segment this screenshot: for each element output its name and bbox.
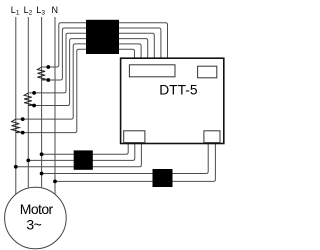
junction dot L3 bottom tap <box>46 78 50 82</box>
svg-text:N: N <box>52 5 59 15</box>
wire L2 shunt bottom tap <box>28 39 147 106</box>
junction dot L3 power <box>40 172 44 176</box>
junction dot L2 sense <box>26 159 30 163</box>
motor M1 circle <box>5 187 67 249</box>
ferrite core block over sense wire bundle <box>86 20 119 54</box>
shunt resistor in L1 <box>12 119 20 133</box>
ferrite core block over lower sense wires <box>74 150 93 169</box>
junction dot L1 top tap <box>21 117 25 121</box>
junction dot L1 bottom tap <box>21 131 25 135</box>
wire L3 vertical <box>41 17 43 188</box>
ferrite core block over power wires <box>153 169 173 187</box>
wire N vertical <box>54 17 56 195</box>
wire L2 voltage sense <box>28 143 135 161</box>
wire L3 shunt top tap <box>42 23 168 67</box>
DTT-5 top-right display window <box>198 66 217 78</box>
wire L1 vertical <box>15 17 17 195</box>
junction dot L2 top tap <box>32 91 36 95</box>
DTT-5 device outline <box>121 58 224 143</box>
wire L1 shunt top tap <box>16 44 141 119</box>
wire L3 power feed <box>42 143 209 174</box>
svg-text:Motor: Motor <box>20 201 54 217</box>
wire L3 voltage sense <box>42 143 129 155</box>
wire L2 shunt top tap <box>28 33 154 93</box>
wire L1 shunt bottom tap <box>16 49 135 132</box>
DTT-5 bottom-right power terminal <box>204 131 220 143</box>
junction dot N power <box>53 180 57 184</box>
wire N power feed <box>55 143 215 182</box>
svg-text:3~: 3~ <box>26 217 41 233</box>
shunt resistor in L3 <box>37 67 45 80</box>
svg-text:DTT-5: DTT-5 <box>159 83 198 98</box>
wire L3 shunt bottom tap <box>42 28 161 80</box>
DTT-5 bottom-left voltage terminal <box>124 131 145 143</box>
wire L1 voltage sense <box>16 143 142 167</box>
DTT-5 top measurement terminal <box>129 65 175 77</box>
wire L2 vertical <box>27 17 29 188</box>
junction dot L3 sense <box>40 152 44 156</box>
junction dot L2 bottom tap <box>32 104 36 108</box>
junction dot L1 sense <box>14 165 18 169</box>
junction dot L3 top tap <box>46 65 50 69</box>
shunt resistor in L2 <box>24 93 32 106</box>
